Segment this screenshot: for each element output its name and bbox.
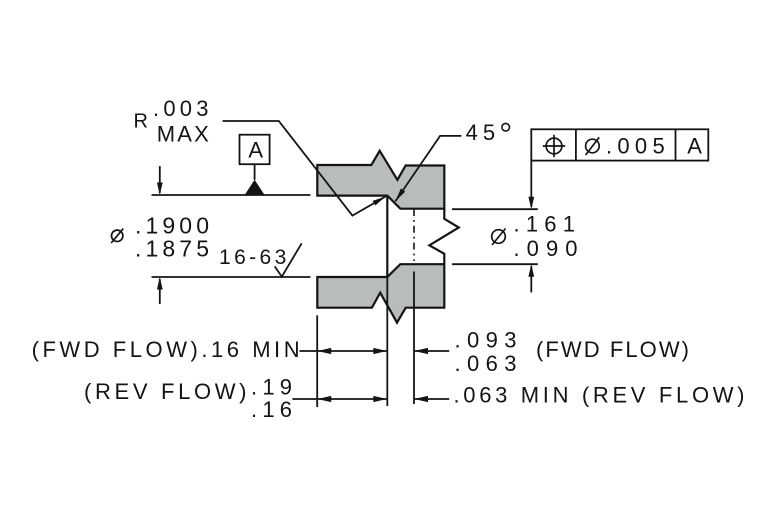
svg-text:A: A [248,137,263,162]
dim arrow left bottom (up) [157,277,163,304]
leader 45deg [395,136,461,201]
dimension arrow FWD (right) [414,348,449,354]
extension line vertical at .063 plane [413,272,415,405]
extension line left bottom [152,276,311,278]
svg-text:.1875: .1875 [135,235,209,261]
datum triangle [245,180,265,195]
extension line vertical at chamfer edge [386,277,388,406]
svg-text:.063 MIN (REV FLOW): .063 MIN (REV FLOW) [454,383,745,408]
dimension line FWD (left) [300,348,388,354]
dimension line REV (left) [292,396,387,402]
bore break line (zigzag right) [429,209,458,265]
text dia .161/.090 [492,229,506,246]
centerline (dash-dot) in small bore [413,209,415,261]
position symbol [543,135,565,157]
FCF leader + arrow (down) [528,161,534,210]
feature control frame [531,129,708,160]
svg-text:A: A [687,134,702,159]
extension line right top [452,208,538,210]
FCF diameter symbol [586,137,600,155]
svg-text:R: R [134,111,148,133]
datum A box [240,135,270,165]
body section upper half (gray) [317,151,444,209]
chamfer edge line [386,196,388,277]
dim arrow left top (down) [157,166,163,195]
leader R.003 [223,121,386,216]
extension line left top [152,194,311,196]
svg-text:16-63: 16-63 [219,246,286,269]
datum stem [254,164,256,180]
svg-text:MAX: MAX [157,122,209,147]
extension line vertical at part left face [316,315,318,407]
svg-text:(REV FLOW): (REV FLOW) [84,379,247,404]
dimension arrow REV (right) [414,396,449,402]
svg-text:(FWD FLOW).16 MIN: (FWD FLOW).16 MIN [32,337,300,362]
extension line right bottom [452,263,538,265]
body section lower half (gray) [317,264,444,322]
text dia .1900/.1875 [111,229,123,243]
surface finish symbol [275,243,302,276]
dim arrow right bottom (up) [528,264,534,292]
